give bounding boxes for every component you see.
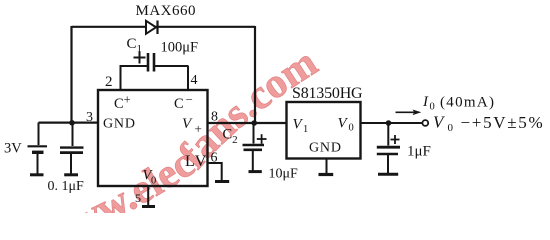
- node junction dot: [69, 120, 75, 126]
- svg-text:0: 0: [448, 122, 454, 134]
- svg-text:10μF: 10μF: [269, 167, 299, 182]
- svg-text:0. 1μF: 0. 1μF: [48, 179, 85, 194]
- svg-text:LV: LV: [185, 153, 208, 170]
- op-amp U1 MAX660 box: [98, 90, 208, 186]
- svg-text:1: 1: [303, 124, 308, 135]
- svg-text:4: 4: [191, 73, 198, 88]
- pin 5 V0 terminal: [142, 186, 155, 207]
- capacitor 0.1uF: [60, 123, 84, 175]
- terminal circle: [422, 120, 428, 126]
- svg-text:−+5V±5%: −+5V±5%: [461, 113, 545, 132]
- current arrow I0: [396, 110, 422, 116]
- svg-text:(40mA): (40mA): [440, 95, 495, 111]
- wire left vertical: [70, 26, 72, 123]
- pin 3 wire: [39, 121, 99, 123]
- svg-text:2: 2: [105, 74, 113, 90]
- capacitor 1uF: [377, 123, 400, 174]
- svg-text:0: 0: [349, 123, 354, 134]
- battery 3V: [28, 123, 48, 175]
- svg-text:+: +: [195, 121, 202, 136]
- svg-text:1μF: 1μF: [407, 144, 431, 160]
- svg-text:100μF: 100μF: [161, 40, 199, 56]
- op-amp U2 S81350HG box: [287, 102, 361, 159]
- capacitor C1 plates: [147, 53, 150, 72]
- svg-text:0: 0: [151, 176, 156, 187]
- 1uF polarity plus: [391, 135, 400, 144]
- capacitor C1 loop wires: [120, 66, 189, 91]
- ground U2: [319, 159, 334, 175]
- ground pin6: [215, 180, 229, 183]
- svg-text:I: I: [422, 94, 429, 110]
- svg-text:6: 6: [211, 151, 218, 166]
- output wire: [361, 122, 423, 124]
- pin 8 wire: [208, 122, 287, 124]
- svg-text:GND: GND: [103, 117, 136, 132]
- pin 6 wire: [208, 162, 223, 181]
- svg-text:3V: 3V: [4, 141, 22, 157]
- C1 polarity plus: [134, 52, 146, 64]
- wire right vertical: [254, 26, 256, 123]
- svg-text:S81350HG: S81350HG: [292, 85, 363, 102]
- svg-text:3: 3: [86, 110, 93, 125]
- node junction dot: [386, 120, 392, 126]
- C2 polarity plus: [257, 134, 267, 144]
- wire top rail: [72, 26, 256, 28]
- svg-text:MAX660: MAX660: [136, 3, 197, 19]
- svg-text:GND: GND: [309, 141, 342, 156]
- diode D1: [146, 21, 158, 35]
- capacitor C2: [243, 123, 265, 172]
- node junction dot: [251, 120, 257, 126]
- svg-text:8: 8: [211, 110, 218, 125]
- svg-text:5: 5: [135, 191, 141, 205]
- svg-text:0: 0: [430, 102, 435, 113]
